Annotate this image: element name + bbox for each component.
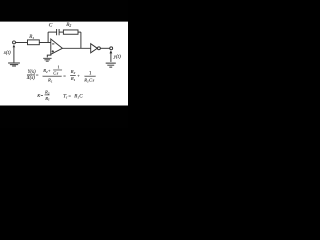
- equation line 1: Y(s)/X(s) = (R2 + 1/(Cs))/R1 = R2/R1 + 1/(R1Cs): [26, 64, 96, 83]
- svg-text:R1C: R1C: [73, 94, 83, 99]
- svg-text:R2: R2: [44, 90, 50, 96]
- wire feedback vertical at node A: [47, 32, 49, 42]
- eq1 frac2 main bar: [43, 75, 62, 78]
- wire op-amp output rail: [62, 47, 90, 49]
- svg-text:=: =: [36, 73, 39, 78]
- svg-text:R1: R1: [70, 76, 76, 82]
- wire R2 to feedback drop: [78, 31, 81, 33]
- svg-text:R2: R2: [70, 69, 76, 75]
- svg-text:R1: R1: [44, 96, 50, 102]
- svg-text:=: =: [68, 93, 71, 98]
- output terminal node y(t): [110, 47, 113, 50]
- arrowhead input source: [13, 45, 16, 48]
- arrow stem input source: [13, 47, 15, 63]
- wire feedback drop to output rail: [80, 32, 82, 48]
- svg-text:R1: R1: [28, 35, 34, 40]
- wire input to R1: [16, 42, 28, 44]
- eq1 frac4 bar: [85, 75, 96, 78]
- eq1 frac3 bar: [70, 74, 75, 77]
- eq1 nested bar: [53, 69, 62, 72]
- input terminal node x(t): [13, 41, 16, 44]
- svg-text:1: 1: [58, 64, 60, 69]
- inverter bubble: [97, 47, 100, 50]
- bottom letterbox bar: [0, 106, 128, 129]
- inverter U2: [91, 44, 98, 53]
- arrow stem output: [110, 53, 112, 62]
- svg-text:=: =: [63, 73, 66, 78]
- ground (input source): [8, 63, 20, 66]
- wire R1 to op-amp inverting input: [39, 42, 51, 44]
- minus sign (inverting input): [52, 43, 54, 45]
- wire C to R2: [59, 31, 63, 33]
- svg-text:C: C: [49, 23, 53, 29]
- svg-text:R1Cs: R1Cs: [83, 78, 94, 84]
- svg-text:Y(s): Y(s): [28, 70, 36, 75]
- plus sign (non-inverting input): [52, 50, 54, 52]
- svg-text:x(t): x(t): [3, 51, 11, 56]
- wire inverter to output node: [100, 47, 109, 49]
- ground (op-amp + input): [43, 58, 51, 61]
- wire feedback top left: [48, 31, 57, 33]
- arrowhead output: [110, 50, 113, 53]
- svg-text:X(s): X(s): [26, 76, 36, 81]
- svg-text:R2: R2: [65, 22, 71, 28]
- eq2 frac bar: [45, 94, 50, 97]
- resistor R2: [63, 30, 78, 34]
- svg-text:Cs: Cs: [53, 71, 58, 76]
- resistor R1: [28, 40, 40, 45]
- ground (output): [106, 63, 116, 67]
- top letterbox bar: [0, 0, 128, 22]
- wire op-amp + input to ground: [47, 54, 51, 57]
- eq1 fraction bar Y/X: [27, 74, 35, 77]
- op-amp U1: [51, 39, 63, 54]
- equation line 2: K = R2/R1 , TI = R1C: [36, 90, 83, 102]
- capacitor C plates: [57, 29, 60, 35]
- svg-text:y(t): y(t): [113, 55, 121, 60]
- svg-text:R1: R1: [47, 77, 53, 83]
